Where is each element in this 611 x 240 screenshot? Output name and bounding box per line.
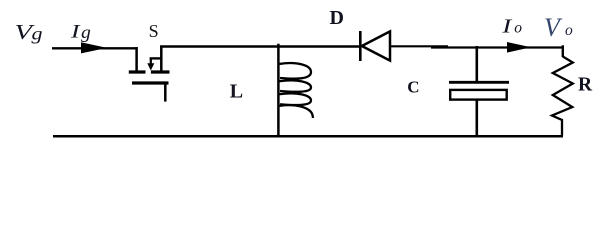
node Ig label	[70, 21, 91, 42]
diode D	[360, 31, 390, 61]
svg-text:o: o	[565, 22, 573, 39]
svg-text:D: D	[330, 7, 344, 29]
wire top middle	[160, 45, 360, 47]
wire top right second segment	[431, 46, 563, 48]
svg-text:o: o	[514, 20, 522, 37]
resistor R	[552, 45, 573, 135]
transistor gate	[132, 83, 169, 102]
current arrow Ig	[81, 42, 107, 53]
svg-text:g: g	[81, 22, 91, 42]
wire bottom rail	[53, 135, 563, 138]
wire top-left input	[52, 47, 137, 49]
svg-text:g: g	[32, 23, 43, 43]
wire top right	[390, 45, 448, 47]
svg-text:C: C	[407, 78, 419, 97]
current arrow Io	[507, 42, 531, 53]
svg-text:S: S	[149, 21, 159, 41]
capacitor C	[449, 46, 509, 136]
svg-text:L: L	[230, 80, 243, 102]
svg-text:R: R	[578, 74, 593, 95]
node Vo label	[544, 13, 573, 42]
svg-text:I: I	[501, 15, 513, 37]
node Vg label	[15, 20, 43, 44]
node Io label	[501, 15, 522, 37]
inductor L	[278, 44, 313, 136]
transistor Q1 (switch S)	[129, 46, 170, 73]
